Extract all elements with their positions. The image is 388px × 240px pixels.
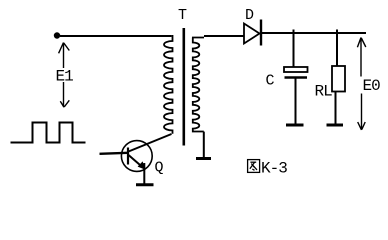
wire secondary top to diode anode (204, 35, 244, 37)
svg-text:D: D (245, 7, 254, 24)
wire capacitor top lead + junction stub (293, 30, 295, 68)
svg-text:Q: Q (155, 160, 164, 177)
node A (input node dot) (54, 32, 60, 38)
wire diode cathode to right end (262, 32, 366, 34)
capacitor C bottom plate (285, 76, 308, 79)
svg-text:K-3: K-3 (261, 160, 287, 178)
svg-text:RL: RL (315, 83, 333, 101)
arrow E1 up head (59, 43, 70, 69)
transistor Q base bar (127, 148, 129, 165)
transformer core bar (183, 28, 186, 146)
hanzi 图 of caption 图K-3 (248, 160, 260, 173)
wire transistor base lead (100, 153, 128, 154)
transformer T primary winding (164, 35, 173, 134)
arrow E0 up head (357, 38, 365, 77)
ground bar under capacitor (286, 124, 304, 127)
svg-text:C: C (266, 73, 275, 90)
transformer T secondary winding (192, 38, 204, 132)
square-wave input symbol (11, 123, 86, 143)
wire transistor collector to primary (129, 134, 172, 152)
ground bar under RL (327, 124, 344, 127)
svg-text:E1: E1 (56, 68, 74, 86)
svg-text:T: T (178, 7, 187, 24)
wire emitter lead down (143, 163, 145, 184)
arrow E1 down head (60, 82, 69, 107)
diode D triangle (244, 24, 260, 44)
wire resistor RL bottom lead (335, 92, 337, 124)
capacitor C top plate (284, 67, 308, 72)
ground bar under transistor (136, 183, 154, 186)
ground bar under secondary (196, 157, 211, 160)
wire capacitor bottom lead (295, 79, 297, 124)
resistor RL body (332, 66, 345, 92)
wire resistor RL top lead + junction stub (336, 30, 338, 67)
transistor Q circle (121, 141, 152, 172)
wire top-left rail from node to transformer primary (60, 35, 172, 37)
diode D cathode bar (260, 20, 262, 46)
transistor Q emitter arrowhead (138, 161, 146, 169)
arrow E0 down head (358, 94, 366, 131)
svg-text:E0: E0 (363, 77, 381, 95)
transistor Q emitter (129, 155, 144, 168)
wire secondary bottom lead down (203, 132, 205, 158)
